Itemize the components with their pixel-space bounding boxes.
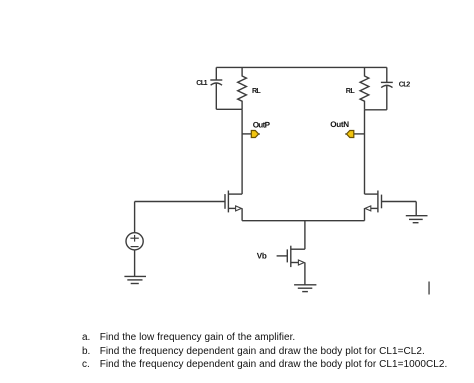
svg-text:OutN: OutN [330, 120, 349, 129]
svg-text:L: L [256, 86, 261, 95]
svg-text:OutP: OutP [253, 120, 271, 129]
svg-text:2: 2 [406, 79, 410, 88]
svg-text:Vb: Vb [257, 252, 267, 261]
svg-text:L: L [350, 86, 355, 95]
svg-text:1: 1 [204, 78, 208, 87]
